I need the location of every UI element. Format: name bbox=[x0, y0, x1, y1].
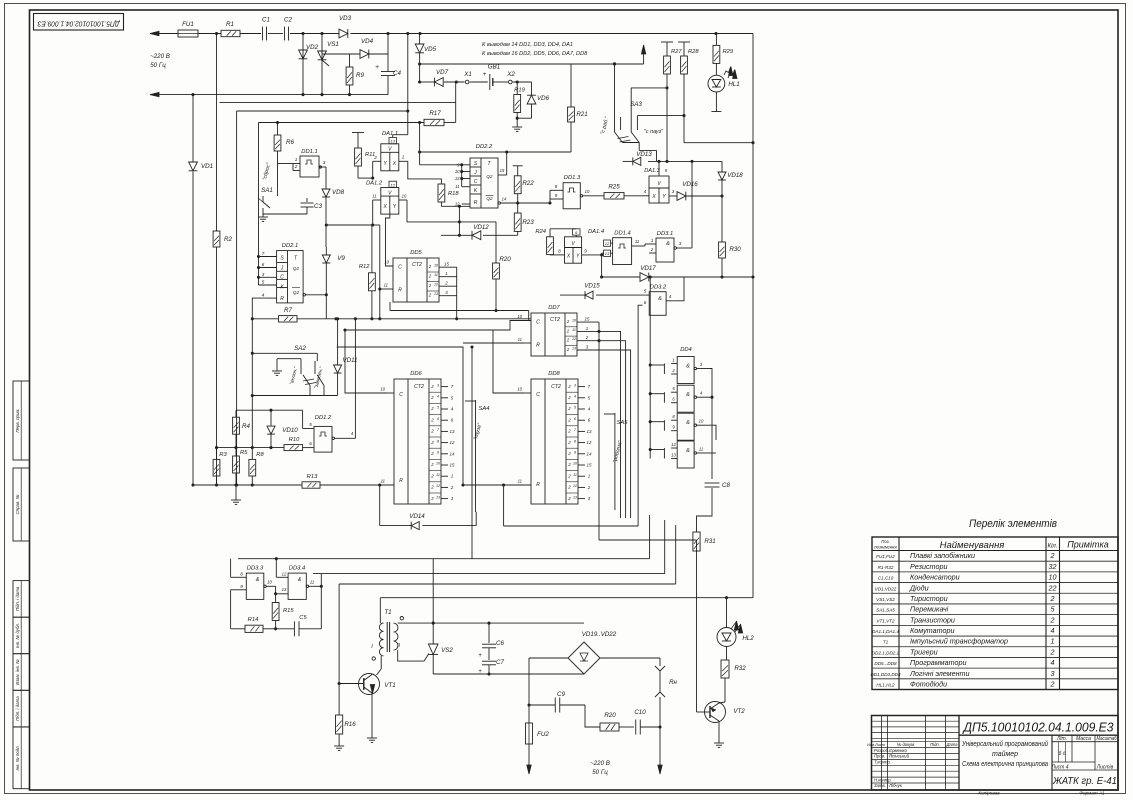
wire DD4 input bus bbox=[649, 365, 651, 459]
svg-text:12: 12 bbox=[587, 440, 592, 445]
resistor R18 bbox=[438, 184, 445, 202]
JK trigger DD2.1 bbox=[277, 251, 304, 303]
wire DD5 R-pin vertical bbox=[379, 225, 381, 319]
svg-text:8: 8 bbox=[558, 248, 561, 253]
svg-text:FU1,FU2: FU1,FU2 bbox=[876, 554, 895, 559]
svg-text:R30: R30 bbox=[729, 246, 741, 253]
svg-text:3: 3 bbox=[574, 383, 576, 387]
resistor R25 bbox=[604, 193, 624, 199]
resistor R7 bbox=[252, 298, 278, 319]
thyristor VS1 bbox=[321, 34, 323, 95]
svg-text:SA1,SA5: SA1,SA5 bbox=[876, 608, 895, 613]
svg-text:C: C bbox=[536, 392, 540, 398]
LED HL1 bbox=[708, 75, 725, 92]
svg-text:2: 2 bbox=[567, 395, 571, 400]
svg-text:R6: R6 bbox=[286, 139, 294, 146]
svg-text:5: 5 bbox=[262, 280, 265, 285]
wire bus y=318 bbox=[326, 318, 531, 320]
svg-text:R7: R7 bbox=[284, 307, 292, 314]
svg-text:R: R bbox=[399, 478, 403, 484]
svg-text:Підп. і дата: Підп. і дата bbox=[15, 696, 20, 721]
connector X1 bbox=[465, 80, 469, 84]
svg-text:таймер: таймер bbox=[992, 750, 1018, 758]
svg-text:DD2.2: DD2.2 bbox=[476, 144, 493, 150]
wire DD5 output bus bbox=[456, 267, 458, 319]
svg-text:2: 2 bbox=[430, 462, 434, 467]
svg-text:Резистори: Резистори bbox=[910, 562, 947, 571]
resistor R13 bbox=[302, 482, 320, 488]
diode VD7 bbox=[434, 78, 443, 87]
svg-text:2: 2 bbox=[430, 406, 434, 411]
svg-text:5: 5 bbox=[309, 422, 312, 427]
wire DD4 input bus up to VD17 row bbox=[649, 275, 652, 278]
table row: Логічні элементи bbox=[872, 678, 1118, 680]
svg-text:8: 8 bbox=[574, 439, 576, 443]
svg-text:2: 2 bbox=[430, 440, 434, 445]
wire: right vertical bus x=753 bbox=[752, 34, 754, 598]
svg-text:R12: R12 bbox=[359, 264, 370, 270]
svg-text:15: 15 bbox=[585, 317, 590, 322]
svg-text:Універсальний програмований: Універсальний програмований bbox=[961, 740, 1048, 748]
fuse FU2 bbox=[526, 723, 533, 744]
wire bus y=347 bbox=[337, 347, 531, 485]
svg-text:2: 2 bbox=[567, 384, 571, 389]
svg-text:14: 14 bbox=[587, 451, 592, 456]
diode VD4 bbox=[322, 53, 360, 55]
svg-text:C9: C9 bbox=[557, 691, 565, 698]
ground under R19 bbox=[516, 118, 518, 124]
DD7 pins left bbox=[524, 320, 531, 322]
svg-text:2: 2 bbox=[430, 485, 434, 490]
wire bridge left / FU2 bbox=[529, 657, 568, 659]
svg-text:VD7: VD7 bbox=[436, 69, 449, 76]
svg-text:2: 2 bbox=[430, 384, 434, 389]
svg-text:10: 10 bbox=[573, 462, 577, 466]
svg-text:2: 2 bbox=[567, 451, 571, 456]
left margin stamp box "Інв. № подл." bbox=[13, 727, 30, 789]
capacitor C2 bbox=[284, 27, 286, 41]
left margin stamp box "Взам. інв. №" bbox=[13, 654, 30, 691]
svg-text:SA4: SA4 bbox=[479, 406, 490, 412]
svg-text:VD13: VD13 bbox=[636, 151, 652, 158]
svg-text:VD4: VD4 bbox=[361, 38, 374, 45]
svg-text:X: X bbox=[392, 161, 397, 167]
svg-text:Найменування: Найменування bbox=[940, 540, 1005, 551]
svg-text:2: 2 bbox=[567, 440, 571, 445]
svg-text:R22: R22 bbox=[522, 180, 534, 187]
svg-text:Лібчук: Лібчук bbox=[888, 783, 903, 788]
svg-text:&: & bbox=[666, 241, 670, 247]
svg-text:8: 8 bbox=[555, 184, 558, 189]
svg-text:12: 12 bbox=[671, 442, 676, 447]
svg-text:13: 13 bbox=[436, 495, 440, 499]
wire stair D y=597.7 bbox=[380, 597, 753, 599]
svg-text:Затв.: Затв. bbox=[874, 783, 886, 788]
svg-text:6: 6 bbox=[309, 441, 312, 446]
svg-text:10: 10 bbox=[434, 264, 438, 268]
resistor R2 bbox=[213, 231, 220, 247]
svg-text:6: 6 bbox=[574, 417, 576, 421]
svg-text:DD2.1: DD2.1 bbox=[282, 243, 298, 249]
diode V9 bbox=[325, 247, 327, 255]
svg-text:2: 2 bbox=[430, 451, 434, 456]
diode VD16 bbox=[677, 192, 686, 201]
svg-text:10: 10 bbox=[517, 387, 522, 392]
diode VD8 bbox=[325, 167, 327, 189]
svg-text:X: X bbox=[566, 254, 571, 260]
svg-text:11: 11 bbox=[518, 337, 522, 342]
wire DD1.3 input bracket bbox=[549, 190, 551, 203]
diode VD12 bbox=[483, 234, 518, 236]
svg-text:+: + bbox=[375, 64, 379, 71]
document number box (rotated) top-left bbox=[34, 14, 124, 31]
wire stair A to DD3.4 pin 12 bbox=[275, 557, 278, 560]
svg-text:DD3.4: DD3.4 bbox=[289, 566, 305, 572]
svg-text:12: 12 bbox=[572, 337, 576, 341]
wire bottom rail y=674 bbox=[433, 673, 584, 675]
svg-text:Діоди: Діоди bbox=[909, 583, 929, 592]
svg-text:DD2.1,DD2.2: DD2.1,DD2.2 bbox=[872, 650, 900, 655]
svg-text:2: 2 bbox=[567, 496, 571, 501]
wire R11 to DA1.1 pin 2 bbox=[372, 161, 374, 178]
svg-text:C4: C4 bbox=[393, 70, 401, 77]
svg-text:5: 5 bbox=[437, 406, 439, 410]
LED HL2 bbox=[726, 598, 728, 628]
svg-text:3: 3 bbox=[672, 189, 675, 194]
wire long y=152 over DD2.2 bbox=[420, 151, 571, 153]
resistor R15 bbox=[275, 594, 277, 603]
svg-text:Транзистори: Транзистори bbox=[910, 615, 955, 624]
title block frame bbox=[872, 716, 1119, 791]
wire staircase 1 bbox=[220, 102, 456, 104]
svg-text:~220 В: ~220 В bbox=[150, 53, 170, 60]
svg-text:VD1: VD1 bbox=[201, 163, 213, 170]
svg-text:2: 2 bbox=[566, 347, 570, 352]
svg-text:~220 В: ~220 В bbox=[590, 760, 610, 767]
svg-text:5: 5 bbox=[574, 406, 576, 410]
svg-text:К выводам 16 DD2, DD5, DD6, DA: К выводам 16 DD2, DD5, DD6, DA7, DD8 bbox=[482, 51, 588, 57]
svg-text:10: 10 bbox=[1049, 573, 1057, 582]
analog switch DA1.3 bbox=[649, 176, 669, 203]
svg-text:4: 4 bbox=[1051, 626, 1055, 635]
DD2.1 left pins bbox=[259, 256, 277, 258]
left margin stamp box "Підп. і дата" bbox=[13, 581, 30, 618]
capacitor C3 bbox=[306, 198, 308, 202]
svg-text:6: 6 bbox=[437, 417, 439, 421]
svg-text:Тиристори: Тиристори bbox=[910, 594, 948, 603]
table row: Комутатори bbox=[872, 635, 1118, 637]
svg-text:C: C bbox=[280, 275, 284, 281]
counter DD5 bbox=[393, 258, 439, 302]
svg-text:DA1.3: DA1.3 bbox=[644, 168, 660, 174]
svg-text:11: 11 bbox=[436, 473, 440, 477]
wire DA1.1 pin 13 up bbox=[392, 135, 394, 138]
one-shot DD1.2 bbox=[314, 426, 332, 452]
svg-text:12: 12 bbox=[390, 182, 395, 187]
diode VD14 bbox=[411, 522, 419, 530]
wire: mains line 2 (y=94.6) bbox=[150, 94, 388, 96]
svg-text:4: 4 bbox=[574, 395, 576, 399]
wire VT2 collector/emitter bbox=[719, 702, 725, 703]
svg-text:15: 15 bbox=[587, 463, 592, 468]
wire subnet rail y=447.6 bbox=[217, 447, 285, 449]
capacitor C1 bbox=[262, 27, 264, 41]
svg-text:3: 3 bbox=[1051, 669, 1055, 678]
svg-text:2: 2 bbox=[444, 281, 448, 286]
svg-text:ЖАТК гр. Е-41: ЖАТК гр. Е-41 bbox=[1052, 775, 1117, 787]
table row: Тиристори bbox=[872, 603, 1118, 605]
svg-text:II: II bbox=[397, 643, 400, 649]
svg-text:22: 22 bbox=[1048, 583, 1057, 592]
svg-text:VS2: VS2 bbox=[441, 647, 453, 654]
left margin stamp box "Перв. прим." bbox=[13, 381, 30, 460]
capacitor C8 bbox=[705, 482, 720, 484]
svg-text:R17: R17 bbox=[429, 110, 441, 117]
wire DD2.1 Q2bar output bbox=[303, 294, 305, 296]
svg-text:б д: б д bbox=[1059, 751, 1066, 757]
svg-text:Листів: Листів bbox=[1096, 764, 1114, 770]
wire DD2.1 R-pin vertical down to SA2 bbox=[251, 319, 253, 448]
svg-text:Фотодіоди: Фотодіоди bbox=[910, 680, 947, 689]
svg-text:DA1.2: DA1.2 bbox=[366, 181, 383, 187]
svg-text:11: 11 bbox=[384, 283, 388, 288]
svg-text:C: C bbox=[399, 392, 403, 398]
table row: Діоди bbox=[872, 592, 1118, 594]
svg-text:6: 6 bbox=[644, 300, 647, 305]
wire DD3.2 pin 6 long vertical bbox=[638, 305, 642, 526]
svg-text:VD2: VD2 bbox=[306, 44, 319, 51]
diode VD17 bbox=[602, 276, 640, 278]
svg-text:32: 32 bbox=[1049, 562, 1057, 571]
counter DD6 bbox=[394, 379, 441, 504]
svg-text:R: R bbox=[536, 343, 540, 349]
svg-text:2: 2 bbox=[587, 485, 591, 490]
svg-text:12: 12 bbox=[434, 283, 438, 287]
svg-text:Справ. №: Справ. № bbox=[15, 494, 20, 514]
svg-text:7: 7 bbox=[262, 251, 265, 256]
svg-text:10: 10 bbox=[455, 169, 460, 174]
svg-text:1: 1 bbox=[402, 155, 405, 160]
svg-text:13: 13 bbox=[587, 429, 592, 434]
svg-text:1: 1 bbox=[672, 358, 674, 363]
svg-text:Копіровав: Копіровав bbox=[978, 791, 1000, 796]
svg-text:HL1,HL2: HL1,HL2 bbox=[876, 683, 895, 688]
svg-text:2: 2 bbox=[1050, 615, 1055, 624]
svg-text:VT1,VT2: VT1,VT2 bbox=[876, 618, 895, 623]
svg-text:Изм.Лист: Изм.Лист bbox=[867, 743, 885, 747]
svg-text:3: 3 bbox=[679, 241, 682, 246]
svg-text:C3: C3 bbox=[314, 203, 322, 210]
svg-text:C6: C6 bbox=[496, 640, 504, 647]
svg-text:DD1.2: DD1.2 bbox=[315, 415, 332, 421]
gate DD4.1 bbox=[677, 357, 694, 384]
left margin stamp box "Підп. і дата" bbox=[13, 690, 30, 727]
svg-text:Розроб.: Розроб. bbox=[874, 748, 889, 753]
svg-text:C5: C5 bbox=[299, 615, 307, 621]
svg-text:4: 4 bbox=[437, 395, 439, 399]
svg-text:R20: R20 bbox=[604, 712, 616, 719]
wire DA1.1 out to R18 bbox=[408, 161, 442, 184]
logic gate DD3.3 bbox=[246, 573, 263, 599]
svg-text:9: 9 bbox=[437, 451, 439, 455]
wire T1 winding II leads bbox=[398, 622, 434, 624]
logic gate DD3.1 bbox=[656, 238, 674, 262]
parts list table bbox=[872, 537, 1118, 690]
svg-text:VD16: VD16 bbox=[682, 181, 698, 188]
DD6 pins left bbox=[387, 392, 394, 394]
svg-text:+: + bbox=[478, 653, 482, 659]
wire DD3.3 out to DD3.4 pin 13 and R15 bbox=[275, 586, 277, 594]
resistor R3 bbox=[216, 448, 218, 460]
svg-text:ДП5.10010102.04.1.009.ЕЗ: ДП5.10010102.04.1.009.ЕЗ bbox=[37, 20, 121, 27]
svg-text:R9: R9 bbox=[356, 72, 364, 79]
svg-text:10: 10 bbox=[699, 419, 704, 424]
fuse FU1 bbox=[178, 30, 198, 37]
svg-text:12: 12 bbox=[282, 572, 287, 577]
svg-text:12: 12 bbox=[605, 241, 610, 246]
svg-text:13: 13 bbox=[282, 587, 287, 592]
svg-text:VD6: VD6 bbox=[537, 95, 550, 102]
svg-text:К выводам 14 DD1, DD3, DD4, DA: К выводам 14 DD1, DD3, DD4, DA1 bbox=[482, 42, 573, 48]
thyristor VS2 bbox=[432, 623, 434, 644]
svg-text:C1: C1 bbox=[262, 17, 270, 24]
svg-text:Q2: Q2 bbox=[293, 290, 300, 295]
gate DD4.4 bbox=[677, 441, 694, 468]
svg-text:9: 9 bbox=[584, 248, 587, 253]
svg-text:R13: R13 bbox=[307, 474, 318, 480]
svg-text:11: 11 bbox=[381, 479, 385, 484]
svg-text:VD10: VD10 bbox=[282, 427, 298, 434]
svg-text:VT1: VT1 bbox=[384, 682, 395, 689]
svg-text:J: J bbox=[280, 266, 284, 272]
svg-text:C2: C2 bbox=[284, 17, 292, 24]
svg-text:R: R bbox=[398, 288, 402, 294]
wire long vertical x=193 with VD1 bbox=[192, 95, 194, 162]
title block grid lines bbox=[958, 716, 960, 791]
svg-text:Ясінський: Ясінський bbox=[888, 754, 910, 759]
svg-text:Перелік элементів: Перелік элементів bbox=[969, 518, 1057, 530]
svg-text:SA2: SA2 bbox=[294, 345, 306, 352]
svg-text:4: 4 bbox=[644, 189, 647, 194]
diode VD3 bbox=[339, 29, 348, 38]
svg-text:HL1: HL1 bbox=[728, 81, 739, 88]
wire VD14 row bbox=[379, 485, 381, 526]
svg-text:X2: X2 bbox=[506, 71, 515, 78]
wire DD6 C bbox=[345, 330, 387, 393]
svg-text:R29: R29 bbox=[723, 49, 734, 55]
svg-text:9: 9 bbox=[555, 193, 558, 198]
wire bus y=330 bbox=[345, 321, 531, 331]
wire T1 winding I leads bbox=[380, 656, 382, 669]
DD2.2 left pins bbox=[462, 164, 470, 166]
svg-text:15: 15 bbox=[450, 463, 455, 468]
svg-text:X: X bbox=[383, 204, 388, 210]
svg-text:DD5...DD8: DD5...DD8 bbox=[874, 661, 897, 666]
svg-text:3: 3 bbox=[437, 383, 439, 387]
wire bridge out right bbox=[600, 657, 660, 659]
svg-text:R5: R5 bbox=[240, 450, 248, 456]
capacitor C7 bbox=[488, 648, 490, 660]
svg-text:10: 10 bbox=[267, 580, 272, 585]
svg-text:R32: R32 bbox=[734, 665, 746, 672]
svg-text:Підп. і дата: Підп. і дата bbox=[15, 586, 20, 611]
svg-text:4: 4 bbox=[262, 293, 265, 298]
svg-text:Н.контр.: Н.контр. bbox=[874, 777, 892, 782]
svg-text:13: 13 bbox=[390, 139, 395, 144]
table row: Транзистори bbox=[872, 624, 1118, 626]
svg-text:2: 2 bbox=[650, 247, 654, 252]
resistor R30 bbox=[720, 194, 723, 197]
svg-text:R19: R19 bbox=[514, 88, 525, 94]
svg-text:R25: R25 bbox=[608, 184, 620, 191]
svg-text:10: 10 bbox=[585, 189, 590, 194]
svg-text:+: + bbox=[478, 669, 482, 675]
svg-text:X1: X1 bbox=[463, 71, 472, 78]
resistor R12 bbox=[371, 225, 373, 273]
svg-text:11: 11 bbox=[372, 194, 376, 199]
resistor R16 bbox=[338, 682, 341, 685]
svg-text:14: 14 bbox=[502, 197, 507, 202]
svg-text:Єрменко: Єрменко bbox=[889, 748, 907, 753]
svg-text:VD5: VD5 bbox=[424, 46, 437, 53]
table row: Тригери bbox=[872, 656, 1118, 658]
svg-text:№ докум.: № докум. bbox=[897, 742, 915, 747]
resistor R1 bbox=[221, 30, 240, 36]
svg-text:Формат А1: Формат А1 bbox=[1079, 791, 1105, 796]
svg-text:&: & bbox=[686, 364, 690, 370]
wire column x=625.6 bbox=[599, 341, 626, 518]
capacitor C9 bbox=[529, 704, 555, 706]
svg-text:10: 10 bbox=[402, 194, 407, 199]
wire DD3.1 out bbox=[684, 247, 692, 249]
svg-text:VT2: VT2 bbox=[733, 708, 745, 715]
svg-text:R23: R23 bbox=[522, 219, 534, 226]
wire stair C y=584 bbox=[339, 583, 676, 585]
svg-text:2: 2 bbox=[1050, 647, 1055, 656]
svg-text:&: & bbox=[256, 577, 260, 583]
svg-text:Т.контр.: Т.контр. bbox=[874, 760, 891, 765]
svg-text:R1-R32: R1-R32 bbox=[878, 565, 894, 570]
svg-text:2: 2 bbox=[566, 328, 570, 333]
resistor R21 bbox=[570, 64, 572, 108]
svg-text:DD1,DD3,DD4: DD1,DD3,DD4 bbox=[870, 672, 901, 677]
svg-text:2: 2 bbox=[566, 319, 570, 324]
resistor R24 bbox=[549, 229, 551, 237]
SA2 ground branch bbox=[276, 368, 278, 371]
table row: Плавкі запобіжники bbox=[872, 560, 1118, 562]
svg-text:4: 4 bbox=[351, 431, 354, 436]
analog switch DA1.2 bbox=[381, 188, 399, 215]
counter DD8 bbox=[531, 379, 578, 504]
svg-text:11: 11 bbox=[635, 239, 639, 244]
svg-text:2: 2 bbox=[566, 338, 570, 343]
wire DD4 outputs to C8 bbox=[710, 369, 712, 480]
diode VD1 bbox=[189, 162, 198, 171]
svg-text:CT2: CT2 bbox=[551, 384, 561, 390]
svg-text:12: 12 bbox=[450, 440, 455, 445]
svg-text:R10: R10 bbox=[289, 437, 300, 443]
wire vertical x=455.7 bbox=[455, 82, 457, 123]
svg-text:15: 15 bbox=[500, 168, 505, 173]
svg-text:4: 4 bbox=[669, 294, 672, 299]
logic gate DD3.2 bbox=[649, 292, 666, 316]
svg-text:VD3: VD3 bbox=[339, 15, 352, 22]
svg-text:13: 13 bbox=[573, 495, 577, 499]
resistor R6 bbox=[277, 123, 279, 136]
svg-text:&: & bbox=[658, 296, 662, 302]
svg-text:2: 2 bbox=[450, 485, 454, 490]
svg-text:2: 2 bbox=[567, 473, 571, 478]
